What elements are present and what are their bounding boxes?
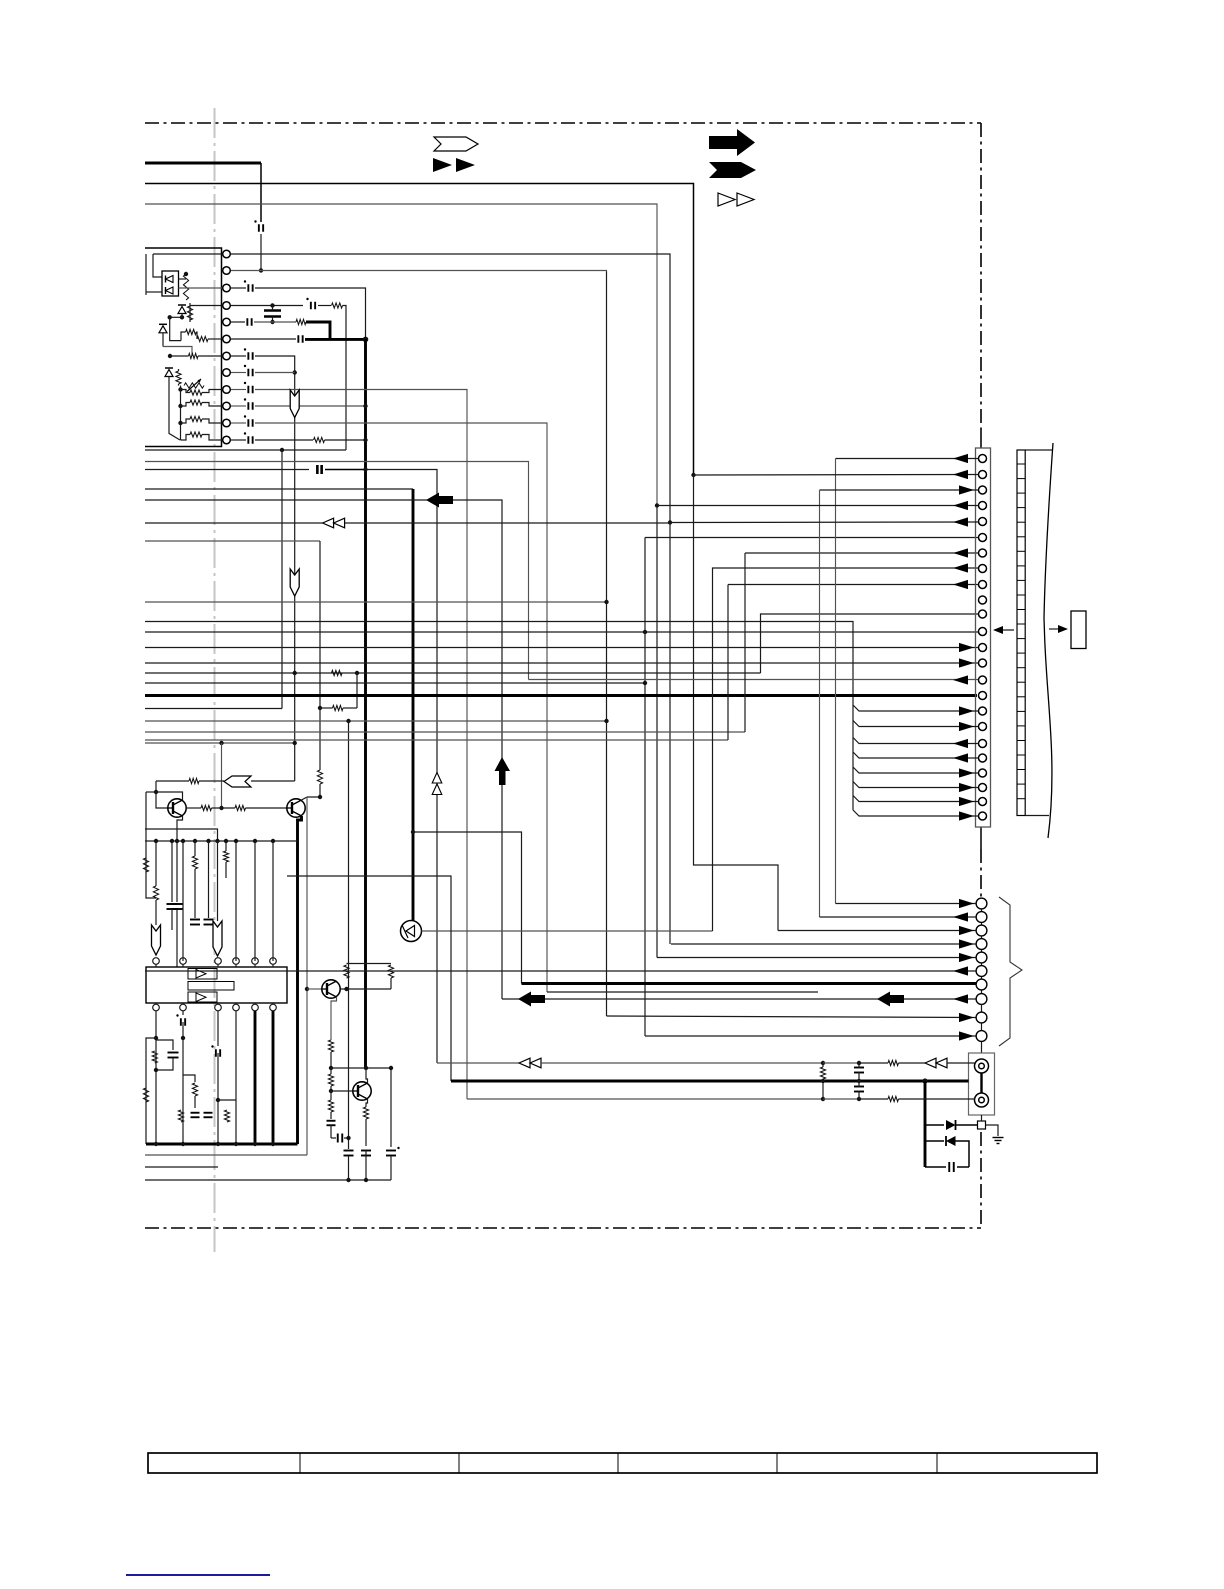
junction	[253, 839, 257, 843]
wire	[146, 1038, 156, 1144]
wire	[202, 390, 222, 393]
connector CN201 pin 24	[979, 812, 987, 820]
connector CN101 pin 6	[223, 335, 231, 343]
IC101 top pin 5	[252, 958, 259, 965]
capacitor C112	[247, 386, 249, 394]
arrowhead	[953, 753, 968, 762]
capacitor C129	[361, 1150, 371, 1152]
wire	[319, 708, 321, 770]
junction	[344, 987, 348, 991]
wire row2	[231, 271, 607, 272]
connector CN201 pin 12	[979, 628, 987, 636]
wire	[179, 278, 187, 280]
page border right upper (dash-dot)	[980, 123, 982, 430]
connector CN201 pin 9	[979, 581, 987, 589]
connector CN201 pin 22	[979, 784, 987, 792]
wire	[656, 506, 658, 958]
wire pin957	[657, 957, 976, 959]
resistor R101	[183, 274, 188, 300]
connector CN201 pin 6	[979, 534, 987, 542]
wire row679 gray	[529, 679, 979, 681]
wire	[365, 1119, 367, 1146]
capacitor C113	[247, 402, 249, 410]
IC101 bottom pin 3	[215, 1004, 222, 1011]
capacitor C114	[247, 419, 249, 427]
junction	[857, 1097, 861, 1101]
wire stub from bundle	[853, 810, 978, 816]
connector CN201 pin 4	[979, 502, 987, 510]
symbol: open pennant arrow (fast-forward outline)	[434, 137, 478, 151]
connector CN201 pin 11	[979, 610, 987, 618]
junction	[329, 1089, 333, 1093]
resistor R114	[314, 437, 325, 442]
wire	[246, 807, 288, 809]
ground symbol	[993, 1137, 1004, 1139]
wire pin5 row	[670, 521, 978, 524]
FFC ribbon conductors	[1017, 463, 1025, 465]
junction	[270, 303, 274, 307]
white arrow into IC pin1	[152, 925, 161, 955]
arrowhead	[953, 563, 968, 572]
wire	[318, 305, 331, 307]
wire x819	[819, 490, 821, 917]
resistor R124	[223, 851, 228, 862]
symbol: double open triangles right	[718, 193, 735, 206]
IC101 internal register	[188, 982, 234, 991]
resistor R134	[328, 1100, 333, 1112]
connector CN202 pin 4	[976, 939, 987, 950]
wire	[178, 369, 180, 371]
wire	[182, 1011, 184, 1015]
junction	[154, 839, 158, 843]
wire pin7 stub	[170, 355, 189, 357]
wire pin6 stub	[208, 338, 222, 340]
wire	[390, 1156, 392, 1180]
wire net W163 (thick stub)	[145, 162, 261, 165]
block arrow left on W500	[426, 493, 453, 508]
capacitor C104	[264, 309, 281, 312]
wire row781	[156, 780, 189, 782]
junction	[318, 795, 322, 799]
wire	[366, 470, 438, 1064]
junction	[922, 1078, 927, 1083]
wire	[155, 841, 157, 861]
FFC cable curve	[1044, 443, 1053, 838]
transistor Q103	[322, 980, 340, 998]
wire row1155 gray	[145, 1154, 307, 1156]
connector CN202 pin 2	[976, 912, 987, 923]
connector CN101 pin 7	[223, 352, 231, 360]
wire x365 thick	[364, 339, 367, 1068]
wire	[320, 707, 333, 709]
junction	[293, 370, 297, 374]
capacitor C201	[854, 1067, 864, 1069]
page border right lower (dash-dot)	[980, 1132, 982, 1228]
resistor R105	[189, 353, 198, 358]
junction	[216, 1098, 220, 1102]
capacitor C120	[204, 919, 214, 921]
connector CN201 pin 15	[979, 676, 987, 684]
wire row1099	[467, 1098, 823, 1100]
diode D104	[165, 370, 173, 377]
arrowhead	[959, 899, 974, 908]
wire row992	[547, 991, 818, 993]
wire row989	[340, 988, 391, 990]
arrowhead	[953, 966, 968, 975]
junction	[168, 315, 172, 319]
wire row7	[255, 356, 295, 781]
wire	[231, 389, 246, 391]
arrowhead	[959, 643, 974, 652]
signal source symbol	[401, 921, 422, 942]
wire thick	[254, 1011, 257, 1144]
wire	[859, 1062, 888, 1064]
capacitor C126	[327, 1120, 336, 1122]
resistor R102	[187, 306, 192, 320]
wire	[343, 707, 357, 709]
wire	[858, 1072, 860, 1081]
IC101 bottom pin 1	[153, 1004, 160, 1011]
wire	[348, 1156, 350, 1180]
wire row1167	[145, 1166, 218, 1168]
resistor R130	[344, 965, 349, 978]
block arrow left	[518, 992, 545, 1007]
arrowhead	[953, 739, 968, 748]
wire row12	[255, 439, 313, 441]
junction	[216, 1142, 220, 1146]
connector CN101 body	[145, 248, 222, 447]
annotation arrow left	[996, 629, 1014, 631]
wire stub from bundle	[853, 705, 978, 711]
jack JK201 ring contact	[975, 1093, 989, 1107]
wire x221	[221, 743, 223, 808]
junction	[178, 404, 182, 408]
wire pin553row	[745, 552, 978, 554]
wire	[254, 321, 296, 323]
resistor R115	[317, 770, 322, 784]
wire	[199, 780, 224, 782]
open double arrow left	[323, 518, 334, 528]
resistor R202	[888, 1096, 899, 1101]
capacitor C202	[854, 1086, 864, 1088]
junction	[184, 272, 188, 276]
wire	[254, 841, 256, 961]
wire spine CN202	[981, 898, 983, 1004]
arrowhead	[959, 1031, 974, 1040]
capacitor C127	[337, 1134, 339, 1143]
capacitor C128	[344, 1150, 354, 1152]
resistor R118	[189, 778, 199, 783]
resistor R129	[224, 1110, 229, 1122]
capacitor C119	[190, 919, 200, 921]
connector CN201 pin 21	[979, 769, 987, 777]
arrowhead	[959, 485, 974, 494]
arrowhead	[959, 939, 974, 948]
wire	[182, 1022, 184, 1144]
connector CN202 pin 9	[976, 1012, 987, 1023]
arrowhead	[959, 783, 974, 792]
capacitor C101	[258, 224, 260, 232]
wire Q101 collector	[156, 792, 183, 800]
junction	[305, 987, 309, 991]
connector CN201 pin 3	[979, 486, 987, 494]
wire	[231, 355, 246, 357]
connector CN202 pin 1	[976, 898, 987, 909]
wire row1016	[607, 1016, 977, 1018]
capacitor C122	[180, 1018, 182, 1026]
wire Q104 base link	[331, 1090, 353, 1092]
capacitor C111	[247, 369, 249, 377]
solid up arrow on x502	[495, 757, 511, 785]
junction	[857, 1061, 861, 1065]
connector CN101 pin 3	[223, 284, 231, 292]
revision table frame	[148, 1453, 1097, 1473]
wire	[146, 291, 162, 293]
resistor R106	[176, 371, 181, 384]
wire stub from bundle	[853, 782, 978, 788]
junction	[643, 630, 647, 634]
wire row876	[287, 876, 451, 1081]
wire	[307, 988, 322, 990]
connector CN201 body	[976, 448, 991, 827]
IC101 top pin 1	[153, 958, 160, 965]
wire	[153, 253, 222, 255]
wire pin2 row	[694, 474, 979, 477]
footer link line (blue)	[126, 1574, 270, 1576]
junction	[206, 839, 210, 843]
wire row1036	[645, 1035, 976, 1037]
junction	[219, 741, 223, 745]
wire row621	[145, 622, 853, 811]
wire row3	[231, 287, 246, 289]
connector CN201 pin 18	[979, 723, 987, 731]
wire	[162, 333, 164, 347]
wire	[225, 841, 227, 851]
wire stub from bundle	[853, 767, 978, 773]
arrowhead	[953, 454, 968, 463]
junction	[178, 421, 182, 425]
wire row683	[145, 682, 645, 684]
wire row489	[145, 488, 413, 490]
wire	[155, 1011, 157, 1144]
wire thick	[306, 322, 330, 339]
wire	[260, 163, 262, 222]
capacitor C123	[215, 1049, 217, 1057]
connector CN201 pin 5	[979, 518, 987, 526]
wire x835	[835, 459, 837, 904]
wire	[180, 386, 182, 441]
wire row1068	[331, 1067, 391, 1069]
junction	[271, 1142, 275, 1146]
arrowhead	[959, 1013, 974, 1022]
wire row450	[145, 449, 346, 451]
arrowhead	[953, 994, 968, 1003]
wire net W183	[145, 184, 694, 476]
diode D102	[178, 307, 186, 314]
connector CN202 pin 10	[976, 1031, 987, 1042]
wire row983 thick	[522, 982, 978, 985]
connector CN201 pin 16	[979, 692, 987, 700]
connector CN101 pin 4	[223, 302, 231, 310]
wire row1167	[925, 1166, 946, 1168]
wire pin903	[836, 903, 977, 905]
wire	[156, 1058, 173, 1070]
wire	[858, 1063, 860, 1068]
wire	[272, 841, 274, 961]
wire row8	[255, 372, 295, 374]
wire Q104 emitter	[366, 1099, 368, 1107]
junction	[668, 520, 672, 524]
FFC top edge	[1025, 449, 1052, 451]
wire row732 gray	[145, 731, 745, 733]
junction	[219, 806, 223, 810]
junction	[259, 268, 263, 272]
wire pin4 stub	[190, 305, 222, 307]
annotation arrow right	[1049, 628, 1064, 630]
block arrow left	[877, 992, 904, 1007]
capacitor C117	[172, 903, 183, 905]
connector CN202 pin 7	[976, 979, 987, 990]
jack JK201 tip contact	[975, 1059, 989, 1073]
wire to ground	[986, 1125, 999, 1136]
resistor R112	[332, 303, 343, 308]
wire	[217, 1053, 219, 1144]
arrowhead	[953, 501, 968, 510]
resistor R128	[178, 1110, 183, 1122]
wire row461 gray	[145, 462, 529, 680]
capacitor C110	[247, 352, 249, 360]
bus row1144 thick	[146, 1143, 298, 1146]
wire row721 gray	[145, 720, 607, 722]
wire	[208, 841, 210, 918]
connector CN101 pin 8	[223, 369, 231, 377]
FFC ribbon strip	[1017, 450, 1025, 816]
wire row523	[145, 522, 323, 524]
connector CN201 pin 23	[979, 798, 987, 806]
page border right mid (dash-dot)	[980, 849, 982, 897]
wire	[330, 1086, 332, 1091]
wire jack link	[980, 1073, 982, 1093]
resistor R121	[143, 858, 148, 872]
junction	[154, 1068, 158, 1072]
wire row1141	[925, 1140, 944, 1142]
transistor Q101	[168, 799, 186, 817]
wire row931 gray	[422, 930, 713, 932]
capacitor C121	[168, 1052, 179, 1054]
resistor R123	[190, 416, 202, 421]
wire	[345, 522, 670, 524]
connector CN201 pin 19	[979, 740, 987, 748]
junction	[363, 438, 367, 442]
page border bottom (dash-dot)	[145, 1227, 981, 1229]
connector CN201 pin 14	[979, 659, 987, 667]
wire	[235, 1011, 237, 1144]
brace	[999, 897, 1022, 1046]
connector CN101 pin 12	[223, 436, 231, 444]
junction	[154, 790, 158, 794]
junction	[821, 1061, 825, 1065]
junction	[604, 600, 608, 604]
wire row999 tail	[502, 998, 976, 1000]
wire pin3 row	[820, 489, 979, 491]
white arrow down B	[290, 569, 299, 596]
wire row4	[231, 305, 303, 307]
wire	[330, 1052, 332, 1068]
junction	[346, 719, 350, 723]
wire	[225, 862, 227, 878]
wire gray link	[163, 347, 192, 357]
wire row602 gray	[145, 601, 607, 603]
resistor R119	[201, 805, 212, 810]
wire x146	[145, 792, 147, 841]
wire pin930	[778, 930, 976, 932]
wire	[255, 288, 366, 339]
wire	[956, 1141, 970, 1167]
resistor R203	[820, 1067, 825, 1079]
wire stub from bundle	[853, 752, 978, 758]
wire x413 thick	[412, 489, 415, 921]
wire	[823, 1062, 859, 1064]
junction	[253, 1142, 257, 1146]
junction	[655, 503, 659, 507]
resistor R16	[190, 400, 202, 405]
resistor R104	[197, 336, 208, 341]
symbol: large solid block arrow right	[709, 129, 755, 156]
junction	[363, 337, 369, 343]
open double arrow left	[519, 1058, 530, 1068]
wire	[181, 435, 191, 441]
wire	[235, 841, 237, 961]
wire x357	[356, 673, 358, 708]
wire	[251, 780, 295, 782]
wire	[694, 475, 779, 931]
wire Q101-Q102 base link	[186, 807, 201, 809]
wire	[212, 807, 236, 809]
wire Q102 emitter thick	[298, 816, 302, 1144]
connector CN202 pin 6	[976, 966, 987, 977]
wire row673	[145, 672, 761, 674]
capacitor C102	[247, 284, 249, 292]
wire	[307, 784, 320, 797]
wire net W204	[145, 204, 657, 506]
wire row632	[145, 631, 978, 633]
wire	[858, 1091, 860, 1099]
wire jack-square	[981, 1115, 983, 1121]
capacitor C115	[247, 436, 249, 444]
wire thick	[325, 469, 366, 471]
wire row971	[145, 970, 976, 972]
wire row10	[255, 405, 366, 407]
junction	[329, 1066, 333, 1070]
white arrow into IC pin3	[213, 921, 222, 956]
arrowhead	[959, 658, 974, 667]
junction	[168, 354, 172, 358]
wire pin917	[820, 916, 977, 918]
wire row5	[231, 321, 245, 323]
junction	[178, 387, 182, 391]
connector CN101 pin 10	[223, 402, 231, 410]
wire	[231, 405, 246, 407]
wire	[957, 1166, 969, 1168]
capacitor C125	[204, 1112, 213, 1114]
wire pin1 row	[836, 458, 979, 460]
arrowhead	[959, 768, 974, 777]
junction	[234, 1142, 238, 1146]
connector CN201 pin 10	[979, 596, 987, 604]
connector CN101 pin 5	[223, 318, 231, 326]
wire row1081 thick	[451, 1080, 969, 1083]
resistor R125	[143, 1088, 148, 1102]
